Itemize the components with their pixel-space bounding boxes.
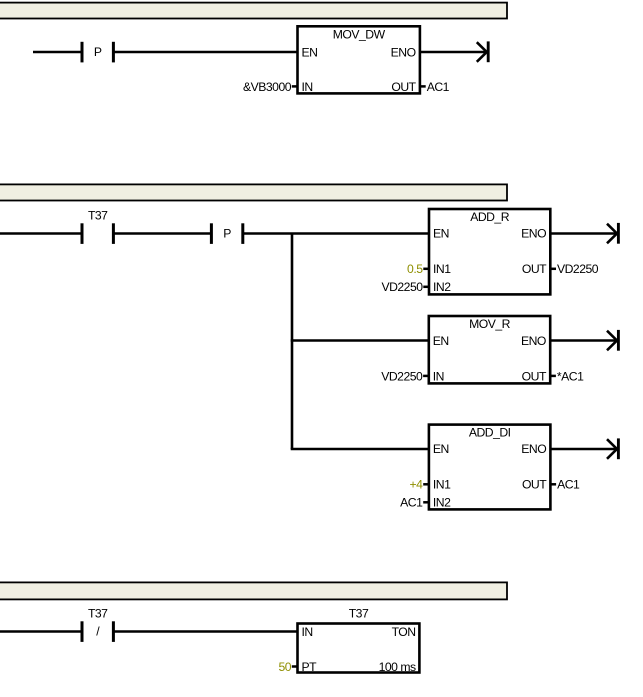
svg-text:+4: +4 <box>409 478 423 492</box>
label T37 above NC contact <box>88 607 108 621</box>
svg-text:IN: IN <box>302 80 313 94</box>
svg-text:&VB3000: &VB3000 <box>243 80 292 94</box>
svg-text:ADD_DI: ADD_DI <box>469 426 511 440</box>
svg-text:OUT: OUT <box>391 80 416 94</box>
tick PT input TON <box>292 665 298 668</box>
contact T37 network2 <box>82 223 113 244</box>
wire network2 P contact to ADD_R box <box>243 232 430 235</box>
tick OUT output MOV_R <box>550 375 556 378</box>
svg-text:IN: IN <box>302 625 313 639</box>
tick IN2 input ADD_R <box>423 286 429 289</box>
svg-text:50: 50 <box>278 660 291 674</box>
contact T37 normally closed network3 <box>82 621 113 642</box>
operand AC1 at ADD_DI IN2 <box>400 496 423 510</box>
svg-text:VD2250: VD2250 <box>381 280 423 294</box>
arrow open rung end MOV_R <box>607 330 618 351</box>
svg-text:ENO: ENO <box>521 227 546 241</box>
branch vertical wire network2 <box>291 234 294 450</box>
svg-text:EN: EN <box>302 45 318 59</box>
svg-text:AC1: AC1 <box>427 80 450 94</box>
svg-text:IN1: IN1 <box>433 262 451 276</box>
svg-text:AC1: AC1 <box>557 478 580 492</box>
box ADD_DI <box>429 425 551 510</box>
operand AC1 at ADD_DI OUT <box>557 478 580 492</box>
svg-text:MOV_R: MOV_R <box>469 317 511 331</box>
svg-text:IN: IN <box>433 369 444 383</box>
wire network3 left segment <box>0 630 82 633</box>
box TON timer T37 <box>298 624 420 674</box>
arrow open rung end ADD_R <box>607 223 618 244</box>
wire ADD_R ENO to arrow <box>550 232 617 235</box>
arrow open rung end network1 <box>477 41 488 62</box>
label T37 above contact <box>88 209 108 223</box>
tick IN2 input ADD_DI <box>423 501 429 504</box>
wire network2 between contacts <box>113 232 211 235</box>
svg-text:VD2250: VD2250 <box>381 369 423 383</box>
box MOV_R <box>429 316 550 383</box>
svg-text:P: P <box>223 227 231 241</box>
svg-text:IN2: IN2 <box>433 280 451 294</box>
svg-text:OUT: OUT <box>522 369 547 383</box>
contact P (positive transition) network2 <box>211 223 242 244</box>
wire network1 left segment <box>33 51 82 54</box>
operand VD2250 at ADD_R OUT <box>557 262 599 276</box>
constant 50 at TON PT <box>278 660 291 674</box>
svg-text:P: P <box>94 45 102 59</box>
operand AC1 at MOV_DW OUT <box>427 80 450 94</box>
svg-text:AC1: AC1 <box>400 496 423 510</box>
wire network2 left segment <box>0 232 82 235</box>
svg-text:OUT: OUT <box>522 478 547 492</box>
branch wire to MOV_R EN <box>291 339 429 342</box>
wire ADD_DI ENO to arrow <box>550 448 617 451</box>
wire MOV_DW ENO to arrow <box>420 51 487 54</box>
svg-text:ADD_R: ADD_R <box>470 210 510 224</box>
arrow open rung end ADD_DI <box>607 438 618 459</box>
svg-text:0.5: 0.5 <box>407 262 423 276</box>
wire MOV_R ENO to arrow <box>550 339 617 342</box>
operand *AC1 at MOV_R OUT <box>557 369 584 383</box>
svg-text:EN: EN <box>433 227 449 241</box>
tick OUT output MOV_DW <box>420 85 426 88</box>
svg-text:T37: T37 <box>88 607 108 621</box>
tick IN input MOV_R <box>423 375 429 378</box>
branch wire to ADD_DI EN <box>291 448 430 451</box>
svg-text:TON: TON <box>392 625 416 639</box>
svg-text:100 ms: 100 ms <box>379 660 416 674</box>
svg-text:ENO: ENO <box>391 45 416 59</box>
network 3 header bar <box>0 582 507 599</box>
operand VD2250 at MOV_R IN <box>381 369 423 383</box>
wire network1 contact to MOV_DW box <box>113 51 298 54</box>
tick IN input MOV_DW <box>292 85 298 88</box>
svg-text:T37: T37 <box>349 607 369 621</box>
svg-text:IN1: IN1 <box>433 478 451 492</box>
svg-text:MOV_DW: MOV_DW <box>333 27 386 41</box>
wire network3 contact to TON box <box>113 630 298 633</box>
svg-text:T37: T37 <box>88 209 108 223</box>
svg-text:EN: EN <box>433 442 449 456</box>
box ADD_R <box>429 209 550 294</box>
svg-text:EN: EN <box>433 334 449 348</box>
network 1 header bar <box>0 3 507 19</box>
constant 0.5 at ADD_R IN1 <box>407 262 423 276</box>
label T37 above TON box <box>349 607 369 621</box>
operand VD2250 at ADD_R IN2 <box>381 280 423 294</box>
contact P (positive transition) network1 <box>82 42 113 63</box>
constant +4 at ADD_DI IN1 <box>409 478 423 492</box>
operand &VB3000 at MOV_DW IN <box>243 80 292 94</box>
svg-text:PT: PT <box>302 660 318 674</box>
tick IN1 input ADD_R <box>423 268 429 271</box>
svg-text:OUT: OUT <box>522 262 547 276</box>
svg-text:IN2: IN2 <box>433 496 451 510</box>
network 2 header bar <box>0 184 507 200</box>
svg-text:*AC1: *AC1 <box>557 369 584 383</box>
tick OUT output ADD_DI <box>550 483 556 486</box>
svg-text:ENO: ENO <box>521 442 546 456</box>
box MOV_DW <box>298 26 420 94</box>
svg-text:VD2250: VD2250 <box>557 262 599 276</box>
svg-text:ENO: ENO <box>521 334 546 348</box>
tick IN1 input ADD_DI <box>423 483 429 486</box>
tick OUT output ADD_R <box>550 268 556 271</box>
